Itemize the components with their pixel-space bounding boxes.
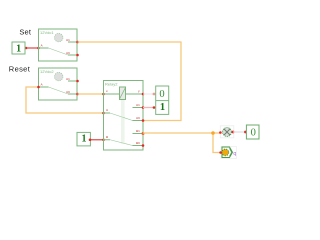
svg-text:A0: A0: [66, 90, 70, 94]
wire U1.A1 to Relay2.A0 (orange): [78, 42, 182, 121]
wire U3.y to display top cell (pale): [143, 93, 155, 96]
svg-text:12Vdc1: 12Vdc1: [40, 30, 54, 35]
svg-text:Reset: Reset: [9, 65, 31, 74]
coil rect U3: [120, 87, 126, 100]
svg-text:A0: A0: [136, 116, 140, 120]
svg-text:A1: A1: [66, 38, 70, 42]
input box Set value 1: [12, 42, 25, 55]
svg-text:12Vdc2: 12Vdc2: [40, 69, 54, 74]
switch blade U2: [49, 87, 69, 94]
coil circle U1: [55, 33, 63, 41]
probe P1: [219, 126, 234, 138]
svg-text:A0: A0: [66, 51, 70, 55]
switch blade B U3: [110, 140, 133, 146]
svg-text:A1: A1: [136, 103, 140, 107]
wire U3.B1 to probe and LED (orange): [143, 131, 221, 152]
switch blade U1: [49, 48, 69, 55]
svg-text:B1: B1: [136, 129, 140, 133]
svg-text:Set: Set: [19, 27, 32, 36]
svg-text:1: 1: [16, 44, 21, 55]
relay U2 12Vdc2 (Reset relay, SPDT): [39, 68, 79, 100]
input box B value 1: [77, 132, 90, 146]
wire U2.A0 to Relay2 coil pin x (orange): [78, 93, 105, 96]
switch blade A U3: [110, 113, 133, 121]
relay U1 12Vdc1 (Set relay, SPDT): [39, 29, 79, 61]
svg-text:1: 1: [82, 134, 87, 145]
junction dot: [211, 131, 215, 135]
relay U3 Relay2 (DPDT): [104, 81, 145, 151]
svg-text:0: 0: [251, 128, 256, 139]
svg-text:0: 0: [159, 89, 164, 100]
svg-text:Relay2: Relay2: [105, 81, 118, 86]
wire U3.A1 to display bottom cell (pink): [143, 106, 155, 109]
svg-text:B0: B0: [136, 141, 140, 145]
svg-text:q: q: [233, 151, 236, 157]
display box 0/1: [156, 86, 169, 114]
output box value 0: [246, 125, 259, 139]
wire input B to Relay2.B (red): [89, 138, 105, 141]
wire probe to box 0 (pale): [233, 131, 247, 134]
svg-text:A1: A1: [66, 77, 70, 81]
armature link dashes U3: [121, 100, 125, 102]
svg-text:1: 1: [160, 102, 165, 113]
LED D1 (lit): [219, 147, 236, 159]
wire U2.A to Relay2.A (orange): [26, 86, 105, 115]
coil circle U2: [55, 72, 63, 80]
wire Set input to relay U1 pin A (red): [25, 47, 40, 50]
